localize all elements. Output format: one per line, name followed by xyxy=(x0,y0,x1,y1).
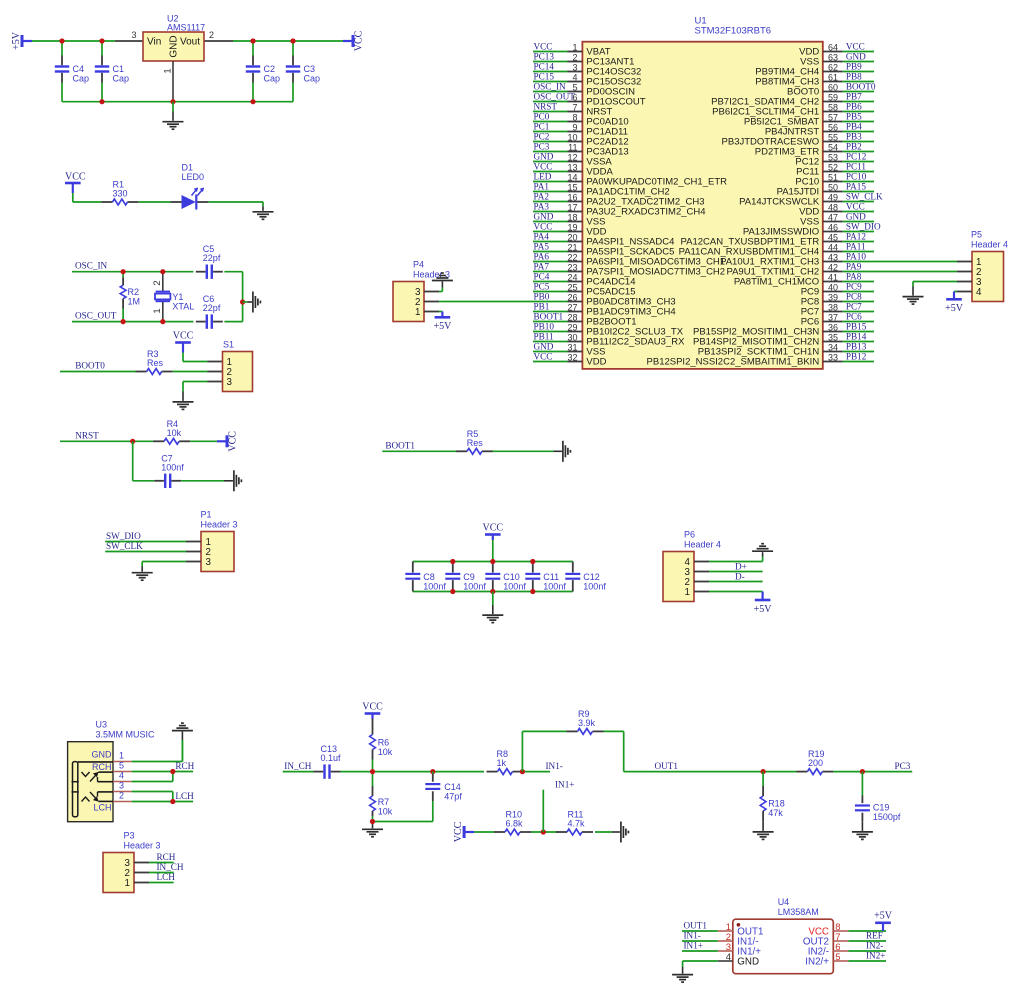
svg-text:LCH: LCH xyxy=(93,803,111,813)
svg-text:23: 23 xyxy=(567,262,577,272)
svg-text:61: 61 xyxy=(828,72,838,82)
svg-text:41: 41 xyxy=(828,272,838,282)
svg-text:VCC: VCC xyxy=(534,161,553,171)
svg-text:C12: C12 xyxy=(583,572,600,582)
svg-text:OSC_IN: OSC_IN xyxy=(75,261,108,271)
svg-text:24: 24 xyxy=(567,272,577,282)
svg-text:3: 3 xyxy=(227,377,233,388)
svg-text:PB7I2C1_SDATIM4_CH2: PB7I2C1_SDATIM4_CH2 xyxy=(711,97,819,108)
svg-text:PA2: PA2 xyxy=(534,191,550,201)
svg-text:39: 39 xyxy=(828,292,838,302)
svg-text:20: 20 xyxy=(567,232,577,242)
svg-text:4: 4 xyxy=(119,771,124,781)
svg-text:PC11: PC11 xyxy=(796,167,819,178)
svg-text:12: 12 xyxy=(567,152,577,162)
svg-text:29: 29 xyxy=(567,322,577,332)
svg-text:43: 43 xyxy=(828,252,838,262)
svg-text:PC7: PC7 xyxy=(846,301,862,311)
svg-text:PA8TIM1_CH1MCO: PA8TIM1_CH1MCO xyxy=(734,277,819,288)
svg-text:PC12: PC12 xyxy=(795,157,819,168)
svg-text:LCH: LCH xyxy=(157,872,176,882)
svg-text:3.9k: 3.9k xyxy=(578,718,596,728)
svg-text:OSC_OUT: OSC_OUT xyxy=(534,91,576,101)
svg-text:IN2+: IN2+ xyxy=(866,950,885,960)
svg-text:2: 2 xyxy=(152,280,163,285)
svg-text:VCC: VCC xyxy=(846,41,865,51)
svg-text:2: 2 xyxy=(119,791,124,801)
svg-text:PA10: PA10 xyxy=(846,251,866,261)
svg-text:PB3JTDOTRACESWO: PB3JTDOTRACESWO xyxy=(722,137,820,148)
svg-text:46: 46 xyxy=(828,222,838,232)
svg-text:LM358AM: LM358AM xyxy=(778,907,819,917)
svg-text:PB15SPI2_MOSITIM1_CH3N: PB15SPI2_MOSITIM1_CH3N xyxy=(693,327,819,338)
svg-text:10k: 10k xyxy=(167,428,182,438)
svg-text:LED0: LED0 xyxy=(182,172,205,182)
svg-text:1: 1 xyxy=(415,307,420,318)
svg-text:Header 3: Header 3 xyxy=(201,520,238,530)
svg-text:VCC: VCC xyxy=(534,351,553,361)
svg-text:100nf: 100nf xyxy=(423,582,446,592)
svg-text:PC14: PC14 xyxy=(534,61,555,71)
svg-text:LED: LED xyxy=(534,171,552,181)
svg-text:PB2: PB2 xyxy=(846,141,862,151)
svg-text:9: 9 xyxy=(572,122,577,132)
svg-text:PD2TIM3_ETR: PD2TIM3_ETR xyxy=(755,147,820,158)
svg-text:100nf: 100nf xyxy=(463,582,486,592)
svg-text:64: 64 xyxy=(828,42,838,52)
svg-text:58: 58 xyxy=(828,102,838,112)
svg-text:PA8: PA8 xyxy=(846,271,862,281)
svg-text:5: 5 xyxy=(119,761,124,771)
svg-text:22: 22 xyxy=(567,252,577,262)
svg-text:PB9TIM4_CH4: PB9TIM4_CH4 xyxy=(755,67,819,78)
svg-text:15: 15 xyxy=(567,182,577,192)
svg-text:U3: U3 xyxy=(96,720,108,730)
svg-text:PC4: PC4 xyxy=(534,271,550,281)
svg-text:PC9: PC9 xyxy=(846,281,862,291)
svg-text:PC0: PC0 xyxy=(534,111,550,121)
svg-text:1: 1 xyxy=(125,878,130,889)
svg-text:11: 11 xyxy=(568,142,577,152)
svg-text:VCC: VCC xyxy=(228,431,239,452)
svg-text:D-: D- xyxy=(735,571,745,581)
svg-text:PA9U1_TXTIM1_CH2: PA9U1_TXTIM1_CH2 xyxy=(726,267,819,278)
svg-text:PA9: PA9 xyxy=(846,261,862,271)
svg-text:PA11: PA11 xyxy=(846,241,866,251)
svg-text:P4: P4 xyxy=(413,260,424,270)
svg-text:SW_DIO: SW_DIO xyxy=(846,221,881,231)
svg-text:31: 31 xyxy=(567,342,577,352)
svg-text:200: 200 xyxy=(808,758,823,768)
svg-text:C8: C8 xyxy=(423,572,435,582)
svg-text:Cap: Cap xyxy=(113,74,130,84)
svg-text:GND: GND xyxy=(737,957,759,968)
svg-text:PA15: PA15 xyxy=(846,181,866,191)
svg-text:PC7: PC7 xyxy=(801,307,819,318)
svg-text:10: 10 xyxy=(567,132,577,142)
svg-text:3: 3 xyxy=(131,30,136,40)
svg-text:Cap: Cap xyxy=(304,74,321,84)
svg-text:47k: 47k xyxy=(768,808,783,818)
svg-text:IN1+: IN1+ xyxy=(684,941,703,951)
svg-text:OUT1: OUT1 xyxy=(684,921,708,931)
svg-text:PB13: PB13 xyxy=(846,341,867,351)
svg-text:PB6: PB6 xyxy=(846,101,862,111)
svg-text:22pf: 22pf xyxy=(203,253,221,263)
svg-text:PB0: PB0 xyxy=(534,291,550,301)
svg-text:P5: P5 xyxy=(971,230,982,240)
svg-text:42: 42 xyxy=(828,262,838,272)
svg-text:Header 4: Header 4 xyxy=(971,240,1008,250)
svg-text:PB8TIM4_CH3: PB8TIM4_CH3 xyxy=(755,77,819,88)
svg-text:+5V: +5V xyxy=(874,910,893,921)
svg-text:14: 14 xyxy=(567,172,577,182)
svg-text:VCC: VCC xyxy=(354,30,365,51)
svg-text:VSS: VSS xyxy=(800,217,819,228)
svg-text:PA15JTDI: PA15JTDI xyxy=(777,187,820,198)
svg-text:C3: C3 xyxy=(304,64,316,74)
svg-text:22pf: 22pf xyxy=(203,303,221,313)
svg-text:Cap: Cap xyxy=(73,74,90,84)
svg-text:40: 40 xyxy=(828,282,838,292)
svg-text:PC8: PC8 xyxy=(801,297,819,308)
svg-text:PA7: PA7 xyxy=(534,261,550,271)
svg-text:VCC: VCC xyxy=(534,221,553,231)
svg-text:PB12: PB12 xyxy=(846,351,867,361)
svg-text:100nf: 100nf xyxy=(543,582,566,592)
svg-text:Vin: Vin xyxy=(147,36,161,47)
svg-text:PC2: PC2 xyxy=(534,131,550,141)
svg-text:4: 4 xyxy=(976,287,982,298)
svg-text:7: 7 xyxy=(572,102,577,112)
svg-text:3.5MM MUSIC: 3.5MM MUSIC xyxy=(96,730,156,740)
svg-text:IN1-: IN1- xyxy=(684,931,701,941)
svg-text:59: 59 xyxy=(828,92,838,102)
svg-text:52: 52 xyxy=(828,162,838,172)
svg-text:C9: C9 xyxy=(463,572,475,582)
svg-text:PC3: PC3 xyxy=(534,141,550,151)
svg-text:VCC: VCC xyxy=(483,523,504,534)
svg-text:45: 45 xyxy=(828,232,838,242)
svg-text:55: 55 xyxy=(828,132,838,142)
svg-text:D+: D+ xyxy=(735,561,747,571)
svg-text:34: 34 xyxy=(828,342,838,352)
svg-text:330: 330 xyxy=(113,189,128,199)
svg-text:100nf: 100nf xyxy=(583,582,606,592)
svg-text:PB10: PB10 xyxy=(534,321,555,331)
svg-text:C11: C11 xyxy=(543,572,559,582)
svg-text:OSC_OUT: OSC_OUT xyxy=(75,310,117,320)
svg-text:1M: 1M xyxy=(128,296,141,306)
svg-text:57: 57 xyxy=(828,112,838,122)
svg-text:S1: S1 xyxy=(223,340,234,350)
svg-text:PA6: PA6 xyxy=(534,251,550,261)
svg-text:GND: GND xyxy=(92,750,113,760)
svg-text:2: 2 xyxy=(572,52,577,62)
svg-text:PC11: PC11 xyxy=(846,161,866,171)
svg-text:C19: C19 xyxy=(873,803,890,813)
svg-text:25: 25 xyxy=(567,282,577,292)
svg-text:3: 3 xyxy=(206,557,212,568)
svg-text:REF: REF xyxy=(866,930,883,940)
svg-text:VCC: VCC xyxy=(65,172,86,183)
svg-text:PB4: PB4 xyxy=(846,121,862,131)
svg-text:10k: 10k xyxy=(378,806,393,816)
svg-text:NRST: NRST xyxy=(534,101,558,111)
svg-text:Header 4: Header 4 xyxy=(684,540,721,550)
svg-text:IN2/+: IN2/+ xyxy=(805,957,829,968)
svg-text:48: 48 xyxy=(828,202,838,212)
svg-text:21: 21 xyxy=(567,242,577,252)
svg-text:28: 28 xyxy=(567,312,577,322)
svg-text:27: 27 xyxy=(567,302,577,312)
svg-text:PA4: PA4 xyxy=(534,231,550,241)
svg-text:36: 36 xyxy=(828,322,838,332)
svg-text:IN2-: IN2- xyxy=(866,940,883,950)
svg-text:C14: C14 xyxy=(444,782,461,792)
svg-text:1: 1 xyxy=(119,751,124,761)
svg-text:GND: GND xyxy=(534,211,554,221)
svg-text:Res: Res xyxy=(467,438,484,448)
svg-text:GND: GND xyxy=(534,341,554,351)
svg-text:VDD: VDD xyxy=(799,207,819,218)
svg-text:PC8: PC8 xyxy=(846,291,862,301)
svg-text:AMS1117: AMS1117 xyxy=(167,23,205,33)
svg-text:53: 53 xyxy=(828,152,838,162)
svg-text:VDD: VDD xyxy=(799,47,819,58)
svg-text:PB14: PB14 xyxy=(846,331,867,341)
svg-text:PA3: PA3 xyxy=(534,201,550,211)
svg-text:4.7k: 4.7k xyxy=(568,819,586,829)
svg-text:U4: U4 xyxy=(778,897,790,907)
svg-text:51: 51 xyxy=(828,172,838,182)
svg-text:PB5I2C1_SMBAT: PB5I2C1_SMBAT xyxy=(744,117,820,128)
svg-text:P6: P6 xyxy=(684,530,695,540)
svg-text:GND: GND xyxy=(846,211,866,221)
svg-text:PA14JTCKSWCLK: PA14JTCKSWCLK xyxy=(739,197,820,208)
svg-text:1: 1 xyxy=(162,68,173,73)
svg-text:38: 38 xyxy=(828,302,838,312)
svg-text:33: 33 xyxy=(828,352,838,362)
svg-text:PA11CAN_RXUSBDMTIM1_CH4: PA11CAN_RXUSBDMTIM1_CH4 xyxy=(679,247,820,258)
svg-text:PC5: PC5 xyxy=(534,281,550,291)
svg-text:C2: C2 xyxy=(264,64,276,74)
svg-text:RCH: RCH xyxy=(157,852,176,862)
svg-text:PC6: PC6 xyxy=(801,317,819,328)
svg-text:BOOT1: BOOT1 xyxy=(385,441,415,451)
svg-text:PC12: PC12 xyxy=(846,151,867,161)
svg-text:49: 49 xyxy=(828,192,838,202)
svg-text:3: 3 xyxy=(119,781,124,791)
svg-text:6.8k: 6.8k xyxy=(506,819,524,829)
svg-text:Res: Res xyxy=(147,358,164,368)
svg-text:2: 2 xyxy=(209,30,214,40)
svg-text:PB11: PB11 xyxy=(534,331,554,341)
svg-text:10k: 10k xyxy=(378,747,393,757)
svg-text:4: 4 xyxy=(726,952,731,963)
svg-text:STM32F103RBT6: STM32F103RBT6 xyxy=(695,26,772,37)
svg-text:PA1: PA1 xyxy=(534,181,550,191)
svg-text:GND: GND xyxy=(169,35,180,57)
svg-text:PA10U1_RXTIM1_CH3: PA10U1_RXTIM1_CH3 xyxy=(720,257,819,268)
svg-text:Vout: Vout xyxy=(180,36,200,47)
svg-text:0.1uf: 0.1uf xyxy=(321,753,342,763)
svg-text:PB4JNTRST: PB4JNTRST xyxy=(765,127,820,138)
svg-text:PA5: PA5 xyxy=(534,241,550,251)
svg-text:P3: P3 xyxy=(124,831,135,841)
svg-text:RCH: RCH xyxy=(175,761,194,771)
svg-text:LCH: LCH xyxy=(175,791,194,801)
svg-text:56: 56 xyxy=(828,122,838,132)
svg-text:OSC_IN: OSC_IN xyxy=(534,81,567,91)
svg-text:C1: C1 xyxy=(113,64,125,74)
svg-text:30: 30 xyxy=(567,332,577,342)
svg-text:VCC: VCC xyxy=(453,821,464,842)
svg-text:26: 26 xyxy=(567,292,577,302)
svg-text:PB14SPI2_MISOTIM1_CH2N: PB14SPI2_MISOTIM1_CH2N xyxy=(693,337,819,348)
svg-text:PC15: PC15 xyxy=(534,71,555,81)
svg-text:C10: C10 xyxy=(503,572,520,582)
svg-text:47pf: 47pf xyxy=(444,792,462,802)
svg-text:PA12: PA12 xyxy=(846,231,866,241)
svg-text:Y1: Y1 xyxy=(172,292,183,302)
svg-text:PB15: PB15 xyxy=(846,321,867,331)
svg-text:1: 1 xyxy=(572,42,577,52)
svg-text:VCC: VCC xyxy=(534,41,553,51)
svg-text:PB3: PB3 xyxy=(846,131,862,141)
svg-text:62: 62 xyxy=(828,62,838,72)
svg-text:PA13JIMSSWDIO: PA13JIMSSWDIO xyxy=(743,227,819,238)
svg-text:13: 13 xyxy=(567,162,577,172)
svg-text:+5V: +5V xyxy=(754,604,773,615)
svg-text:5: 5 xyxy=(835,952,840,963)
svg-text:PB12SPI2_NSSI2C2_SMBAITIM1_BKI: PB12SPI2_NSSI2C2_SMBAITIM1_BKIN xyxy=(647,357,820,368)
svg-text:37: 37 xyxy=(828,312,838,322)
svg-text:BOOT1: BOOT1 xyxy=(534,311,564,321)
svg-text:17: 17 xyxy=(567,202,577,212)
svg-text:1: 1 xyxy=(152,308,163,313)
svg-text:IN_CH: IN_CH xyxy=(284,761,311,771)
svg-text:VCC: VCC xyxy=(846,201,865,211)
svg-text:63: 63 xyxy=(828,52,838,62)
svg-text:PB7: PB7 xyxy=(846,91,862,101)
svg-text:IN1-: IN1- xyxy=(546,761,563,771)
svg-text:Cap: Cap xyxy=(264,74,281,84)
svg-text:3: 3 xyxy=(572,62,577,72)
svg-text:8: 8 xyxy=(572,112,577,122)
svg-text:IN_CH: IN_CH xyxy=(157,862,184,872)
svg-text:PC3: PC3 xyxy=(895,761,911,771)
svg-text:47: 47 xyxy=(828,212,838,222)
svg-text:19: 19 xyxy=(567,222,577,232)
svg-text:VCC: VCC xyxy=(173,331,194,342)
svg-text:PA12CAN_TXUSBDPTIM1_ETR: PA12CAN_TXUSBDPTIM1_ETR xyxy=(681,237,820,248)
svg-text:OUT1: OUT1 xyxy=(655,761,679,771)
svg-text:50: 50 xyxy=(828,182,838,192)
svg-text:PC13: PC13 xyxy=(534,51,555,61)
svg-text:54: 54 xyxy=(828,142,838,152)
svg-text:44: 44 xyxy=(828,242,838,252)
svg-text:PB5: PB5 xyxy=(846,111,862,121)
svg-text:P1: P1 xyxy=(201,510,212,520)
svg-text:PB1: PB1 xyxy=(534,301,550,311)
svg-text:D1: D1 xyxy=(182,163,194,173)
svg-text:60: 60 xyxy=(828,82,838,92)
svg-text:VSS: VSS xyxy=(800,57,819,68)
svg-text:+5V: +5V xyxy=(945,303,964,314)
svg-text:XTAL: XTAL xyxy=(172,301,194,311)
svg-text:18: 18 xyxy=(567,212,577,222)
svg-text:PC1: PC1 xyxy=(534,121,550,131)
svg-text:1500pf: 1500pf xyxy=(873,812,901,822)
svg-text:100nf: 100nf xyxy=(161,462,184,472)
svg-text:VDD: VDD xyxy=(586,357,606,368)
svg-text:+5V: +5V xyxy=(433,321,452,332)
svg-text:BOOT0: BOOT0 xyxy=(846,81,876,91)
svg-text:PB13SPI2_SCKTIM1_CH1N: PB13SPI2_SCKTIM1_CH1N xyxy=(698,347,820,358)
svg-text:IN1+: IN1+ xyxy=(555,779,574,789)
svg-text:PC6: PC6 xyxy=(846,311,862,321)
svg-text:SW_CLK: SW_CLK xyxy=(106,541,143,551)
svg-text:35: 35 xyxy=(828,332,838,342)
svg-text:SW_CLK: SW_CLK xyxy=(846,191,883,201)
svg-text:PC9: PC9 xyxy=(801,287,819,298)
svg-text:VCC: VCC xyxy=(362,702,383,713)
svg-text:PB8: PB8 xyxy=(846,71,862,81)
svg-text:1k: 1k xyxy=(497,758,507,768)
svg-text:+5V: +5V xyxy=(11,31,22,50)
svg-text:PC10: PC10 xyxy=(795,177,819,188)
svg-text:PC10: PC10 xyxy=(846,171,867,181)
svg-text:Header 3: Header 3 xyxy=(124,841,161,851)
svg-text:BOOT0: BOOT0 xyxy=(787,87,819,98)
svg-text:NRST: NRST xyxy=(75,431,99,441)
svg-text:32: 32 xyxy=(567,352,577,362)
svg-text:100nf: 100nf xyxy=(503,582,526,592)
svg-text:SW_DIO: SW_DIO xyxy=(106,531,141,541)
svg-text:GND: GND xyxy=(846,51,866,61)
svg-text:RCH: RCH xyxy=(92,762,112,772)
svg-text:16: 16 xyxy=(567,192,577,202)
svg-text:4: 4 xyxy=(572,72,577,82)
svg-text:PB9: PB9 xyxy=(846,61,862,71)
svg-text:BOOT0: BOOT0 xyxy=(75,361,105,371)
svg-text:PB6I2C1_SCLTIM4_CH1: PB6I2C1_SCLTIM4_CH1 xyxy=(712,107,819,118)
svg-text:GND: GND xyxy=(534,151,554,161)
svg-text:C4: C4 xyxy=(73,64,85,74)
svg-text:1: 1 xyxy=(685,587,690,598)
